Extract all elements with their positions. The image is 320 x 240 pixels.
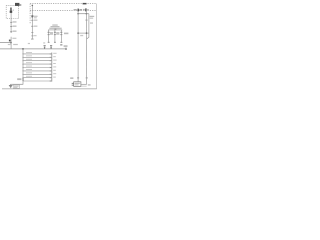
fuse panel dashed outline top edge [30, 3, 96, 5]
label (F2 rating) [87, 9, 89, 11]
wire (to left off-page) [0, 42, 11, 44]
label (cross tie wire name) [64, 33, 68, 35]
wire (second link into M1) [81, 85, 87, 87]
wire (bus to ground) [11, 83, 24, 85]
ground G1 [9, 84, 13, 87]
label "HOT IN RUN" [83, 3, 87, 5]
connectors at drop ends [48, 42, 63, 43]
terminal end of ignition feed [31, 38, 34, 41]
connector C8 [31, 26, 33, 27]
splices S201 S202 on bus B [44, 45, 53, 49]
switch S1 [10, 37, 12, 43]
label (instrument cluster name) [49, 25, 61, 29]
pin numbers at C6 [53, 53, 56, 78]
labels (branch wire names) [26, 52, 32, 77]
connector C5 [22, 78, 24, 81]
label (pin number at M1) [88, 84, 91, 85]
module M1 box with name text [74, 82, 81, 87]
label (under cross tie) [80, 35, 83, 36]
wire (right vertical run 3, merges into run 2) [87, 14, 89, 39]
label (bus wire name) [13, 44, 18, 45]
fuse panel dashed outline left edge [29, 4, 31, 25]
connector C1 [10, 22, 12, 23]
junction dots on ground bus [22, 53, 23, 78]
lamp/indicator symbols on drops [48, 32, 63, 35]
label "HOT AT ALL TIMES" [15, 3, 21, 6]
pins of M1 [72, 82, 74, 85]
wire (S1 to bus) [10, 43, 12, 49]
wire (cluster feed line) [48, 29, 62, 31]
label (wire color at S1) [12, 38, 16, 39]
pin arrows at C6 [50, 53, 52, 81]
connector C6 bar [51, 53, 53, 82]
fuse panel dashed outline lower edge [30, 9, 96, 11]
fuse F2 with value label [85, 8, 86, 11]
labels (above bus B) [28, 43, 30, 44]
connector C13 [86, 77, 88, 78]
wire (horizontal bus B) [0, 48, 66, 50]
connector C3 [10, 31, 12, 32]
connector C2 [10, 26, 12, 27]
wire (right vertical run 1) [77, 11, 79, 81]
wire (feed from FB1) [10, 13, 12, 33]
fuse block FB1 dashed outline [6, 6, 18, 19]
connector C11 [86, 20, 88, 21]
fusible link F3 [10, 8, 12, 11]
connector C4 (bus B end) [65, 48, 67, 50]
wire (run 2 into M1) [81, 83, 87, 85]
wire (bus under F1 F2) with junction dots [78, 13, 89, 15]
node B (cluster feed tap) [54, 29, 56, 30]
connector C7 [31, 20, 33, 21]
labels (between drops) [50, 32, 60, 35]
connector C9 [31, 31, 33, 34]
fuse F1 with value labels [78, 9, 79, 12]
wire (right vertical run 2) [85, 11, 87, 84]
label (at C4) [64, 45, 68, 47]
label (at S2) [34, 16, 38, 17]
label (at C11) [90, 16, 95, 17]
connector C10 [31, 34, 33, 37]
label (at C5) [17, 78, 21, 80]
wire group (branch wires to connector bar) [23, 54, 52, 81]
label (gauge under node) [8, 44, 11, 45]
switch S2 contact [31, 15, 33, 16]
label (right margin note) [90, 22, 93, 23]
wire (cross tie) with junction dots [78, 32, 89, 34]
connector C12 with label [77, 77, 79, 78]
label box (G1 name) [13, 85, 19, 88]
wire (ignition feed, node A top dot) [31, 5, 33, 39]
wire (vertical ground bus) [22, 49, 24, 84]
wire group (cluster branch drops) [49, 30, 62, 43]
